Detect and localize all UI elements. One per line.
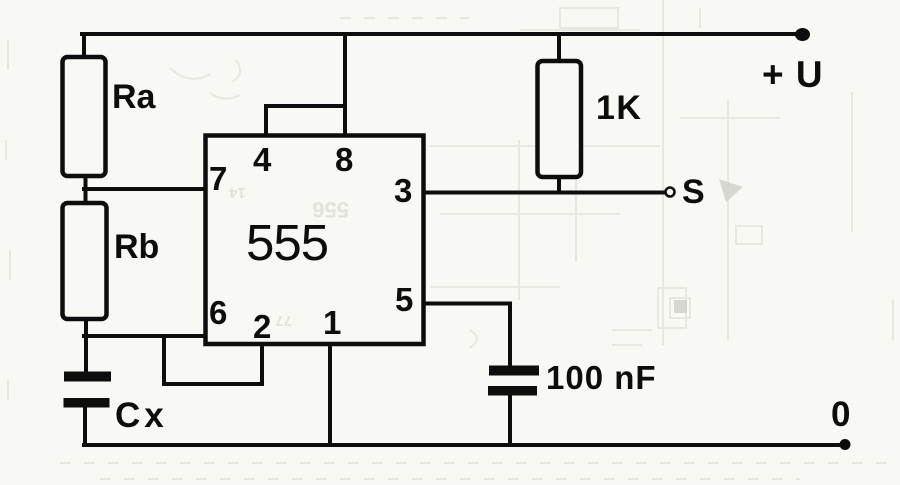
wire: pin 2 loop	[164, 337, 262, 384]
capacitor 100nF bottom plate	[488, 386, 537, 396]
svg-text:77: 77	[275, 312, 292, 329]
svg-text:Rb: Rb	[114, 228, 159, 266]
svg-text:1K: 1K	[596, 89, 642, 127]
terminal S open circle	[666, 188, 675, 197]
wire: junction to pin 6	[84, 334, 207, 338]
resistor 1K	[538, 61, 582, 177]
svg-text:7: 7	[209, 160, 227, 197]
IC U1 555 box	[206, 136, 424, 345]
svg-text:Cx: Cx	[115, 396, 168, 435]
wire: pin 8 to top rail	[343, 34, 347, 134]
svg-text:14: 14	[229, 184, 246, 201]
svg-text:5: 5	[395, 281, 413, 318]
node: 0V terminal dot	[840, 439, 851, 450]
wire: 100nF to ground rail	[508, 395, 512, 445]
wire: +U top supply rail	[82, 32, 800, 36]
wire: top rail down to Ra	[82, 34, 86, 58]
svg-text:+ U: + U	[762, 54, 824, 95]
svg-text:6: 6	[209, 294, 227, 331]
wire: top rail down to 1K	[557, 34, 561, 62]
wire: pin 5 to 100nF	[424, 304, 510, 367]
svg-text:S: S	[682, 173, 705, 211]
svg-text:8: 8	[335, 141, 353, 178]
svg-text:4: 4	[253, 141, 272, 178]
wire: junction to pin 7	[84, 187, 207, 191]
svg-text:3: 3	[394, 172, 412, 209]
ghost marks inside IC area	[229, 184, 349, 329]
svg-text:1: 1	[323, 304, 341, 341]
wire: Rb bottom down to Cx	[84, 319, 88, 371]
wire: pin 4 jumper to pin 8	[266, 106, 345, 134]
wire: 0V bottom rail	[84, 443, 845, 447]
svg-text:0: 0	[831, 395, 850, 434]
capacitor Cx top plate	[64, 372, 111, 382]
wire: pin 3 to terminal S	[424, 191, 664, 195]
svg-text:100 nF: 100 nF	[546, 359, 657, 396]
wire: 1K bottom to output wire	[557, 177, 561, 192]
capacitor Cx bottom plate	[64, 398, 110, 408]
svg-text:Ra: Ra	[112, 78, 157, 116]
node: +U terminal dot	[795, 28, 810, 41]
main schematic	[63, 28, 851, 450]
wire: Ra bottom to Rb top	[84, 176, 88, 203]
wire: Cx to ground rail	[83, 407, 87, 445]
capacitor 100nF top plate	[489, 366, 539, 376]
resistor Rb	[63, 203, 107, 319]
svg-text:2: 2	[253, 308, 271, 345]
resistor Ra	[63, 57, 106, 176]
svg-text:555: 555	[246, 214, 328, 271]
wire: pin 1 to ground rail	[328, 344, 332, 445]
